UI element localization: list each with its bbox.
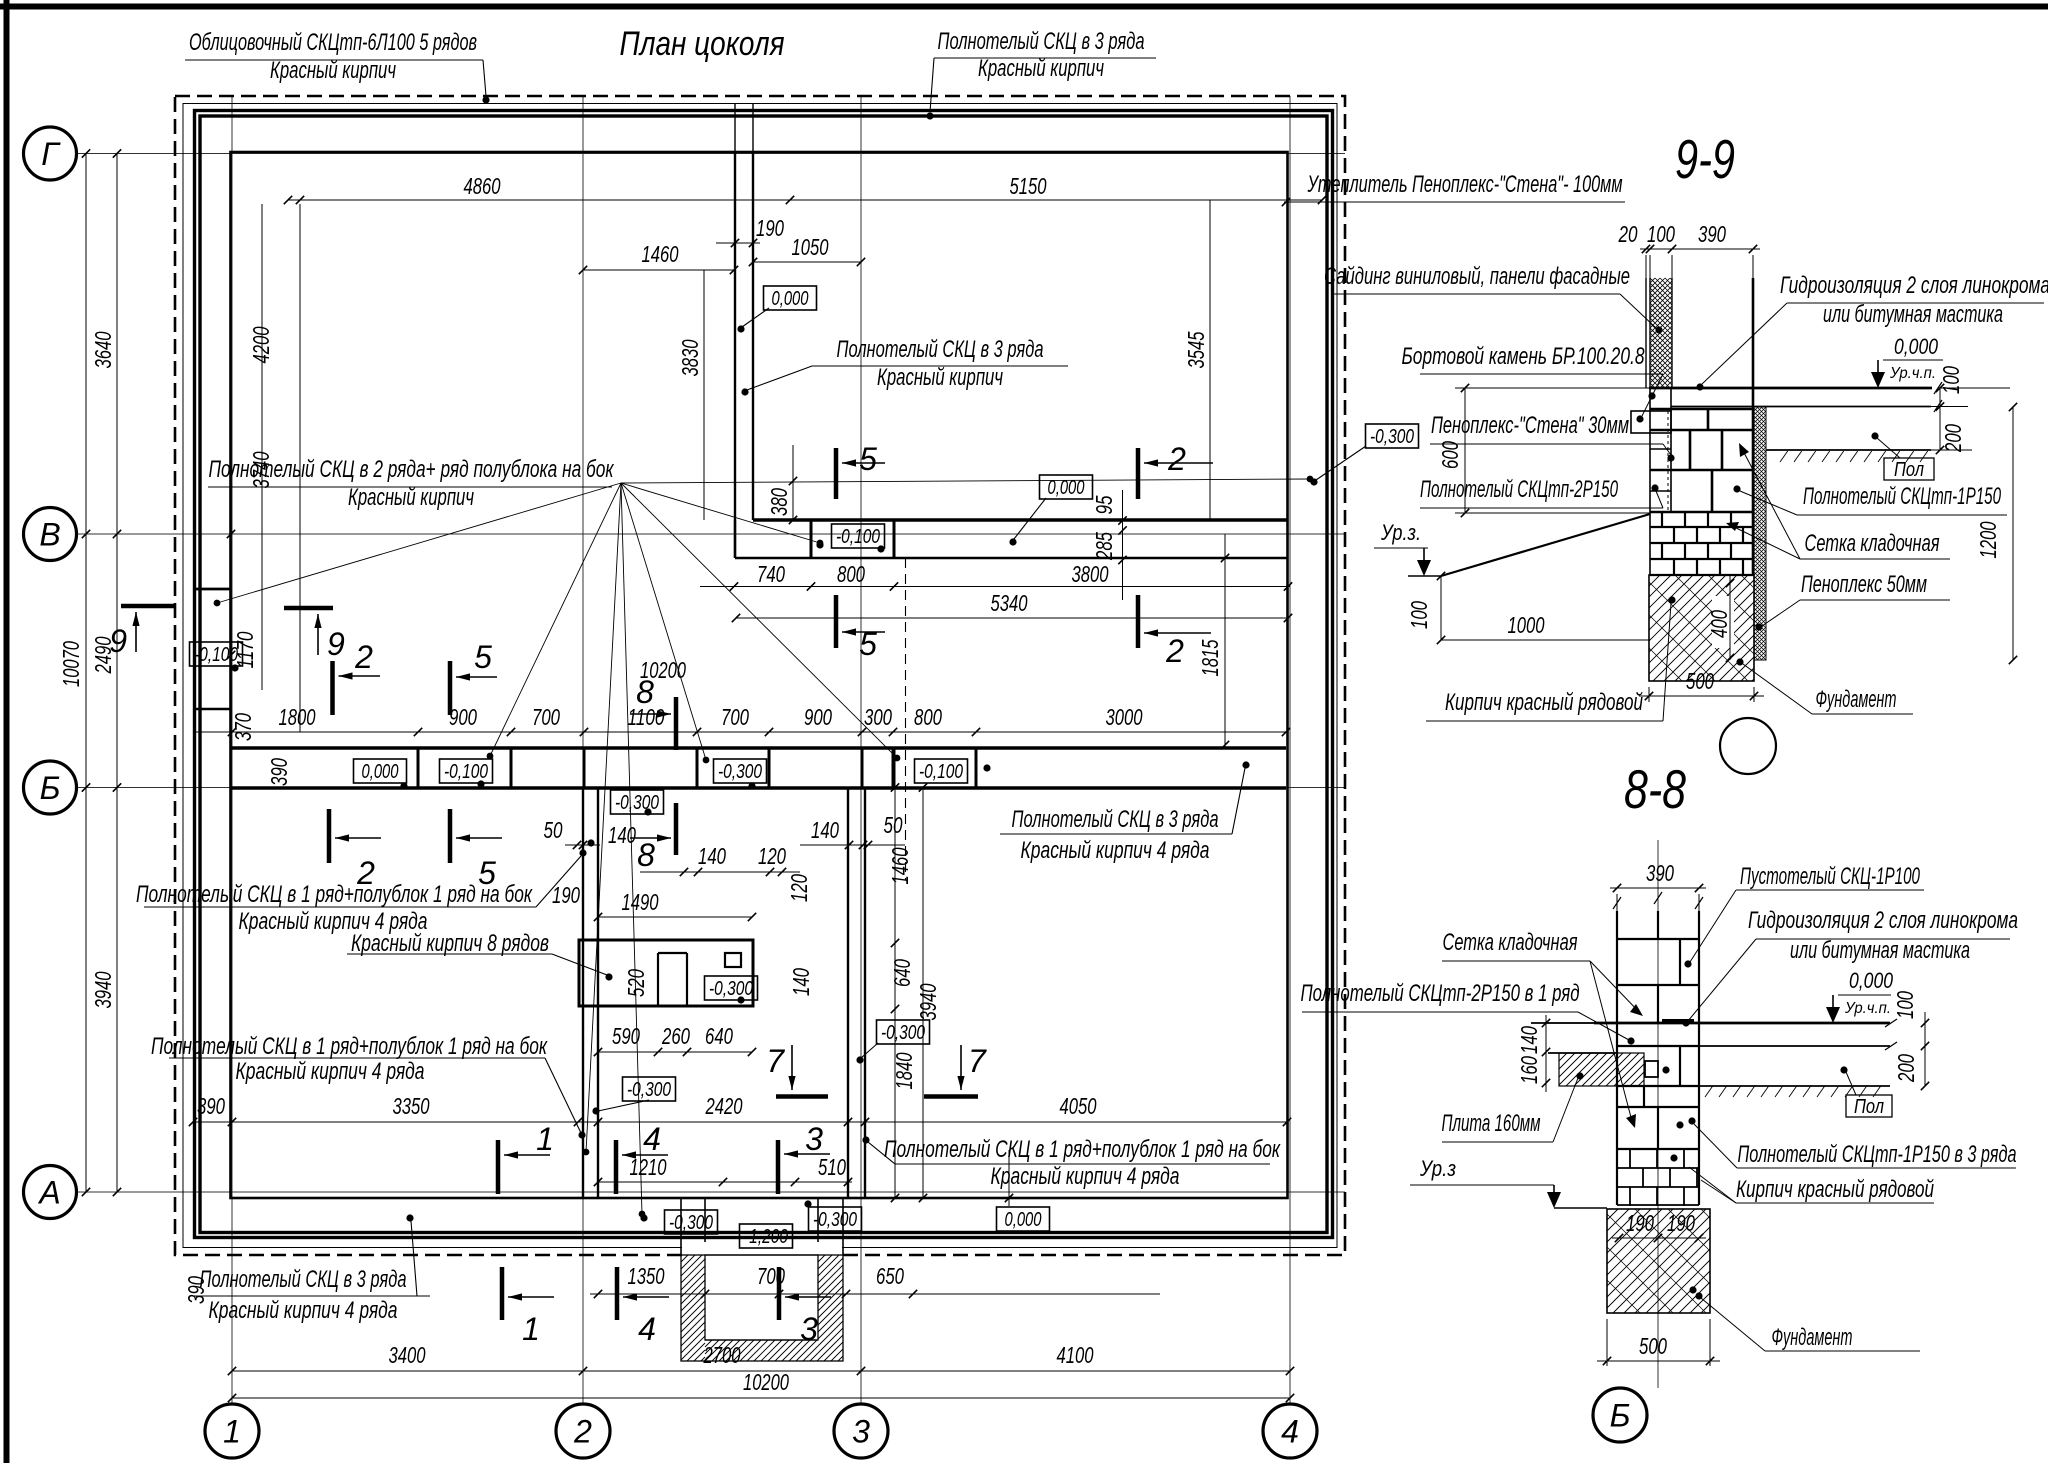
svg-text:95: 95 (1091, 495, 1117, 514)
svg-text:Б: Б (40, 770, 61, 806)
svg-text:500: 500 (1639, 1333, 1667, 1359)
svg-text:1815: 1815 (1197, 639, 1223, 676)
svg-text:или битумная мастика: или битумная мастика (1790, 937, 1970, 964)
svg-text:Полнотелый СКЦтп-1Р150: Полнотелый СКЦтп-1Р150 (1803, 483, 2001, 510)
svg-text:Полнотелый СКЦ в 3 ряда: Полнотелый СКЦ в 3 ряда (837, 336, 1044, 363)
svg-text:3800: 3800 (1072, 561, 1109, 587)
svg-text:190: 190 (756, 215, 784, 241)
svg-text:А: А (37, 1175, 60, 1211)
svg-text:Сайдинг виниловый, панели фаса: Сайдинг виниловый, панели фасадные (1324, 263, 1630, 290)
svg-text:200: 200 (1893, 1054, 1919, 1083)
svg-text:Сетка кладочная: Сетка кладочная (1443, 929, 1578, 956)
svg-text:1050: 1050 (792, 234, 829, 260)
svg-text:1: 1 (522, 1311, 540, 1347)
svg-text:3350: 3350 (393, 1093, 430, 1119)
svg-text:-0,100: -0,100 (919, 761, 963, 783)
svg-text:-0,300: -0,300 (669, 1212, 713, 1234)
svg-text:4: 4 (638, 1311, 656, 1347)
svg-text:Сетка кладочная: Сетка кладочная (1805, 530, 1940, 557)
svg-text:3: 3 (805, 1121, 823, 1157)
svg-text:Красный кирпич 4 ряда: Красный кирпич 4 ряда (236, 1058, 425, 1085)
svg-text:Г: Г (41, 136, 61, 172)
svg-text:390: 390 (197, 1093, 225, 1119)
svg-text:1210: 1210 (630, 1154, 667, 1180)
svg-text:В: В (39, 517, 60, 553)
svg-text:1: 1 (223, 1414, 241, 1450)
svg-text:700: 700 (721, 704, 749, 730)
svg-text:Полнотелый СКЦ в 1 ряд+полубло: Полнотелый СКЦ в 1 ряд+полублок 1 ряд на… (884, 1136, 1281, 1163)
svg-text:Утеплитель Пеноплекс-"Стена"-: Утеплитель Пеноплекс-"Стена"- 100мм (1307, 171, 1623, 198)
svg-text:700: 700 (532, 704, 560, 730)
svg-text:5: 5 (859, 626, 877, 662)
svg-text:Пеноплекс-"Стена" 30мм: Пеноплекс-"Стена" 30мм (1431, 412, 1629, 439)
svg-text:120: 120 (758, 843, 786, 869)
svg-text:7: 7 (766, 1043, 785, 1079)
svg-text:-0,300: -0,300 (709, 978, 753, 1000)
svg-text:5: 5 (474, 639, 492, 675)
svg-text:4860: 4860 (464, 173, 501, 199)
svg-text:Пустотелый СКЦ-1Р100: Пустотелый СКЦ-1Р100 (1740, 863, 1920, 890)
svg-text:Полнотелый СКЦ в 3 ряда: Полнотелый СКЦ в 3 ряда (1012, 806, 1219, 833)
svg-text:1800: 1800 (279, 704, 316, 730)
svg-text:740: 740 (757, 561, 785, 587)
svg-text:2: 2 (1167, 441, 1186, 477)
svg-text:1: 1 (536, 1121, 554, 1157)
svg-text:10200: 10200 (743, 1369, 789, 1395)
svg-text:Полнотелый СКЦ в 2 ряда+ ряд п: Полнотелый СКЦ в 2 ряда+ ряд полублока н… (209, 456, 615, 483)
svg-text:100: 100 (1406, 601, 1432, 629)
svg-text:0,000: 0,000 (1005, 1209, 1042, 1231)
svg-text:4050: 4050 (1060, 1093, 1097, 1119)
svg-text:-0,300: -0,300 (627, 1079, 671, 1101)
svg-text:9: 9 (327, 626, 345, 662)
svg-text:5150: 5150 (1010, 173, 1047, 199)
svg-text:Полнотелый СКЦ в 1 ряд+полубло: Полнотелый СКЦ в 1 ряд+полублок 1 ряд на… (151, 1033, 548, 1060)
svg-text:3400: 3400 (389, 1342, 426, 1368)
svg-text:3000: 3000 (1106, 704, 1143, 730)
svg-text:0,000: 0,000 (772, 288, 809, 310)
svg-text:-0,100: -0,100 (836, 526, 880, 548)
svg-text:520: 520 (623, 969, 649, 997)
svg-text:Бортовой камень БР.100.20.8: Бортовой камень БР.100.20.8 (1402, 343, 1645, 370)
svg-text:Пол: Пол (1854, 1096, 1884, 1118)
svg-text:1000: 1000 (1508, 612, 1545, 638)
svg-text:Полнотелый СКЦтп-2Р150: Полнотелый СКЦтп-2Р150 (1420, 476, 1618, 503)
svg-text:3640: 3640 (90, 331, 116, 368)
svg-text:380: 380 (766, 488, 792, 516)
svg-text:Гидроизоляция 2 слоя линокрома: Гидроизоляция 2 слоя линокрома (1780, 272, 2048, 299)
svg-text:-0,300: -0,300 (1370, 426, 1414, 448)
svg-text:Полнотелый СКЦтп-2Р150 в 1 ря: Полнотелый СКЦтп-2Р150 в 1 ряд (1301, 980, 1580, 1007)
svg-text:-0,300: -0,300 (615, 792, 659, 814)
svg-text:Красный кирпич: Красный кирпич (270, 57, 396, 84)
svg-text:2: 2 (573, 1414, 592, 1450)
svg-text:140: 140 (788, 968, 814, 996)
svg-text:800: 800 (837, 561, 865, 587)
svg-text:650: 650 (876, 1263, 904, 1289)
svg-text:120: 120 (786, 874, 812, 902)
svg-text:8: 8 (637, 837, 655, 873)
svg-text:Кирпич красный рядовой: Кирпич красный рядовой (1445, 689, 1643, 716)
svg-text:Красный кирпич 8 рядов: Красный кирпич 8 рядов (351, 930, 549, 957)
svg-text:285: 285 (1091, 532, 1117, 561)
svg-text:2420: 2420 (705, 1093, 743, 1119)
svg-text:Ур.з: Ур.з (1419, 1156, 1456, 1181)
svg-text:390: 390 (183, 1276, 209, 1304)
svg-text:Фундамент: Фундамент (1816, 686, 1897, 713)
svg-text:План цоколя: План цоколя (620, 25, 785, 63)
svg-text:370: 370 (230, 713, 256, 741)
svg-text:1490: 1490 (622, 889, 659, 915)
svg-text:Б: Б (1610, 1398, 1631, 1434)
svg-text:390: 390 (1698, 221, 1726, 247)
svg-text:50: 50 (884, 812, 903, 838)
svg-text:Красный кирпич 4 ряда: Красный кирпич 4 ряда (991, 1163, 1180, 1190)
svg-text:400: 400 (1706, 610, 1732, 638)
svg-text:Ур.ч.п.: Ур.ч.п. (1889, 365, 1936, 382)
svg-text:640: 640 (889, 959, 915, 987)
svg-text:3: 3 (852, 1414, 870, 1450)
svg-text:200: 200 (1940, 424, 1966, 453)
svg-text:190: 190 (1667, 1210, 1695, 1236)
svg-text:8-8: 8-8 (1624, 758, 1686, 820)
svg-text:9: 9 (109, 623, 127, 659)
svg-text:390: 390 (266, 758, 292, 786)
svg-text:Красный кирпич: Красный кирпич (978, 55, 1104, 82)
svg-text:Облицовочный СКЦтп-6Л100 5 ряд: Облицовочный СКЦтп-6Л100 5 рядов (189, 29, 477, 56)
svg-text:20: 20 (1618, 221, 1638, 247)
svg-text:-0,300: -0,300 (813, 1209, 857, 1231)
svg-text:3940: 3940 (90, 971, 116, 1008)
svg-text:640: 640 (705, 1023, 733, 1049)
svg-text:1170: 1170 (232, 631, 258, 668)
svg-text:510: 510 (818, 1154, 846, 1180)
svg-text:1200: 1200 (1975, 521, 2001, 558)
svg-text:390: 390 (1646, 860, 1674, 886)
svg-text:1460: 1460 (642, 241, 679, 267)
svg-text:4100: 4100 (1057, 1342, 1094, 1368)
svg-text:140: 140 (608, 822, 636, 848)
svg-text:500: 500 (1686, 668, 1714, 694)
svg-text:1350: 1350 (628, 1263, 665, 1289)
svg-text:1460: 1460 (887, 847, 913, 884)
svg-text:10070: 10070 (58, 641, 84, 687)
svg-text:Пеноплекс 50мм: Пеноплекс 50мм (1801, 571, 1927, 598)
svg-text:5340: 5340 (991, 590, 1028, 616)
svg-text:Гидроизоляция 2 слоя линокрома: Гидроизоляция 2 слоя линокрома (1748, 907, 2018, 934)
svg-text:-0,100: -0,100 (444, 761, 488, 783)
svg-text:Красный кирпич: Красный кирпич (348, 484, 474, 511)
svg-text:100: 100 (1892, 991, 1918, 1019)
svg-text:или битумная мастика: или битумная мастика (1823, 301, 2003, 328)
svg-text:2: 2 (1165, 633, 1184, 669)
svg-text:800: 800 (914, 704, 942, 730)
svg-text:-1,200: -1,200 (744, 1226, 788, 1248)
svg-text:Красный кирпич 4 ряда: Красный кирпич 4 ряда (209, 1297, 398, 1324)
svg-text:590: 590 (612, 1023, 640, 1049)
svg-text:900: 900 (804, 704, 832, 730)
svg-text:2: 2 (354, 639, 373, 675)
svg-text:600: 600 (1437, 441, 1463, 469)
svg-text:900: 900 (449, 704, 477, 730)
svg-text:140: 140 (698, 843, 726, 869)
svg-text:700: 700 (757, 1263, 785, 1289)
svg-text:10200: 10200 (640, 657, 686, 683)
svg-text:160: 160 (1516, 1056, 1542, 1084)
svg-text:Пол: Пол (1894, 459, 1924, 481)
svg-text:0,000: 0,000 (1849, 968, 1894, 993)
svg-text:4200: 4200 (248, 326, 274, 363)
svg-text:140: 140 (1516, 1026, 1542, 1054)
svg-text:Плита 160мм: Плита 160мм (1442, 1110, 1541, 1137)
svg-text:Полнотелый СКЦ в 1 ряд+полубло: Полнотелый СКЦ в 1 ряд+полублок 1 ряд на… (136, 881, 533, 908)
svg-text:Полнотелый СКЦ в 3 ряда: Полнотелый СКЦ в 3 ряда (938, 28, 1145, 55)
svg-text:3940: 3940 (915, 983, 941, 1020)
svg-text:5: 5 (859, 441, 877, 477)
svg-text:3545: 3545 (1183, 331, 1209, 368)
svg-text:190: 190 (1626, 1210, 1654, 1236)
svg-text:190: 190 (552, 882, 580, 908)
svg-text:3830: 3830 (677, 339, 703, 376)
svg-text:100: 100 (1938, 366, 1964, 394)
svg-text:300: 300 (864, 704, 892, 730)
svg-text:260: 260 (661, 1023, 690, 1049)
svg-text:Ур.ч.п.: Ур.ч.п. (1844, 1000, 1891, 1017)
svg-text:0,000: 0,000 (1894, 334, 1939, 359)
svg-text:Фундамент: Фундамент (1772, 1324, 1853, 1351)
svg-text:0,000: 0,000 (362, 761, 399, 783)
svg-text:4: 4 (643, 1121, 661, 1157)
svg-text:Полнотелый СКЦ в 3 ряда: Полнотелый СКЦ в 3 ряда (200, 1266, 407, 1293)
svg-text:Красный кирпич: Красный кирпич (877, 364, 1003, 391)
svg-text:Красный кирпич 4 ряда: Красный кирпич 4 ряда (1021, 837, 1210, 864)
svg-text:-0,300: -0,300 (881, 1022, 925, 1044)
svg-text:4: 4 (1281, 1414, 1299, 1450)
svg-text:2700: 2700 (703, 1342, 741, 1368)
svg-text:Ур.з.: Ур.з. (1380, 520, 1421, 545)
svg-text:Полнотелый СКЦтп-1Р150 в 3 ряд: Полнотелый СКЦтп-1Р150 в 3 ряда (1738, 1141, 2017, 1168)
svg-text:1100: 1100 (628, 704, 665, 730)
svg-text:140: 140 (811, 817, 839, 843)
svg-text:50: 50 (544, 817, 563, 843)
svg-text:Кирпич красный рядовой: Кирпич красный рядовой (1736, 1176, 1934, 1203)
svg-text:-0,300: -0,300 (718, 761, 762, 783)
svg-text:7: 7 (968, 1043, 987, 1079)
svg-text:1840: 1840 (891, 1052, 917, 1089)
svg-text:100: 100 (1647, 221, 1675, 247)
svg-text:9-9: 9-9 (1675, 128, 1735, 190)
svg-text:3: 3 (800, 1311, 818, 1347)
